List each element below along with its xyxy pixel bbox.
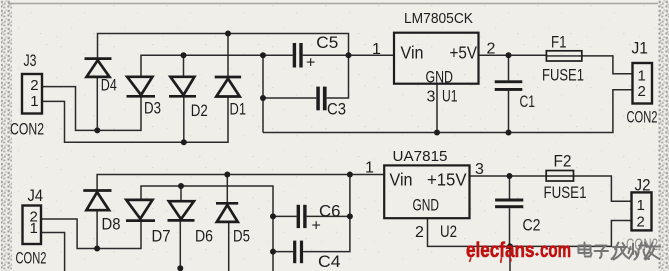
svg-text:Vin: Vin xyxy=(401,43,424,63)
svg-text:1: 1 xyxy=(637,197,645,214)
svg-text:D8: D8 xyxy=(102,216,121,234)
svg-text:LM7805CK: LM7805CK xyxy=(404,11,473,27)
svg-text:elecfans: elecfans xyxy=(466,238,535,262)
svg-text:C2: C2 xyxy=(523,217,541,235)
svg-text:FUSE1: FUSE1 xyxy=(544,184,587,202)
svg-text:D6: D6 xyxy=(195,228,213,246)
svg-text:+15V: +15V xyxy=(427,170,467,190)
svg-text:2: 2 xyxy=(637,214,645,231)
svg-text:GND: GND xyxy=(426,69,454,87)
svg-text:UA7815: UA7815 xyxy=(393,149,448,165)
svg-text:GND: GND xyxy=(413,197,440,215)
svg-text:Vin: Vin xyxy=(390,170,413,190)
svg-text:C6: C6 xyxy=(319,203,341,221)
svg-text:3: 3 xyxy=(475,161,484,178)
svg-text:2: 2 xyxy=(487,41,496,58)
svg-text:C5: C5 xyxy=(316,34,338,52)
svg-text:CON2: CON2 xyxy=(16,250,47,268)
svg-text:1: 1 xyxy=(30,93,38,110)
svg-text:D2: D2 xyxy=(191,102,208,120)
svg-text:2: 2 xyxy=(30,77,38,94)
svg-text:+: + xyxy=(312,218,321,235)
svg-text:F1: F1 xyxy=(551,34,567,52)
svg-text:+: + xyxy=(306,55,315,72)
svg-text:J1: J1 xyxy=(632,40,649,58)
svg-text:D4: D4 xyxy=(101,77,117,95)
svg-text:1: 1 xyxy=(638,68,646,85)
svg-text:U1: U1 xyxy=(442,88,458,106)
svg-text:2: 2 xyxy=(415,224,424,241)
svg-text:C1: C1 xyxy=(520,93,536,111)
svg-text:3: 3 xyxy=(427,89,436,106)
svg-text:CON2: CON2 xyxy=(627,109,658,127)
svg-text:1: 1 xyxy=(365,160,374,177)
svg-text:J2: J2 xyxy=(635,177,651,195)
svg-text:F2: F2 xyxy=(554,153,572,171)
svg-text:D7: D7 xyxy=(152,228,171,246)
svg-text:2: 2 xyxy=(638,83,646,100)
svg-text:1: 1 xyxy=(30,220,38,237)
svg-text:+5V: +5V xyxy=(450,43,478,63)
svg-text:D3: D3 xyxy=(144,100,161,118)
svg-text:CON2: CON2 xyxy=(10,121,44,139)
svg-text:J3: J3 xyxy=(24,52,37,70)
svg-text:com: com xyxy=(540,238,571,262)
svg-text:D1: D1 xyxy=(230,101,247,119)
svg-text:J4: J4 xyxy=(28,187,44,205)
svg-text:C3: C3 xyxy=(327,101,346,119)
svg-text:U2: U2 xyxy=(440,223,457,241)
svg-text:1: 1 xyxy=(372,41,381,58)
svg-text:C4: C4 xyxy=(318,253,341,271)
svg-text:D5: D5 xyxy=(233,228,250,246)
svg-text:FUSE1: FUSE1 xyxy=(542,67,584,85)
